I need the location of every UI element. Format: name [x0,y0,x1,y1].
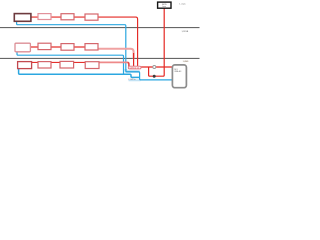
svg-text:1. www: 1. www [179,3,186,5]
wire: red vertical into connector from row 2 [133,53,135,66]
device box right [172,65,186,88]
svg-text:54/31 4:15: 54/31 4:15 [130,67,140,69]
wire: red drop from row 3 into connector [128,62,129,66]
bus separator line 2 [0,57,200,59]
component row1 box3 [61,14,74,20]
component row1 box1 (dark) [14,14,31,22]
component row2 box4 [85,44,98,50]
svg-text:fuse: fuse [162,6,165,8]
svg-text:CEM A:3: CEM A:3 [174,70,181,73]
wire: red chain row 2 pale highlighted part [99,49,134,59]
component row3 box1 [18,62,32,69]
svg-text:1,4MS: 1,4MS [183,61,189,63]
connector pill label [128,66,141,69]
splice node dot [153,75,156,78]
component row2 box3 [61,44,74,51]
component row1 box4 [85,14,98,20]
wire: red drop from top black box looping left below main line [149,8,165,76]
svg-text:1,2FSB: 1,2FSB [182,31,189,33]
component row3 box4 [85,62,99,69]
component row2 box1 (pink) [15,43,30,52]
component row3 box3 [60,61,74,68]
svg-text:2 16/15a: 2 16/15a [128,79,136,81]
wire: pale blue highlight band bottom [129,79,141,81]
component row1 box2 [38,14,51,20]
top black box [158,2,171,8]
wire: cyan bus row 3 [19,68,140,77]
wire: red chain row 3 bright part [32,61,99,63]
wire: red chain row 3 pale highlighted part [99,62,129,66]
component row2 box2 [38,43,51,49]
bus separator line 1 [0,27,200,29]
wire: red chain row 1 [31,17,138,66]
wire: red chain row 2 bright part [31,46,99,48]
wire: cyan bus row 2 [17,52,125,74]
component row3 box2 [38,62,51,68]
inline connector open circle [153,66,156,69]
wire: cyan bus row 1 [17,21,173,80]
wire: pale blue highlight band [126,69,140,72]
wire: red main line connector to device [141,66,173,68]
